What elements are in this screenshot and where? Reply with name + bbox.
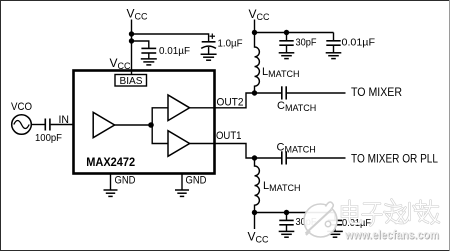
- wire A3 to pin OUT1: [190, 143, 215, 145]
- junction node E: [284, 30, 289, 35]
- wire OUT2 to node F: [215, 93, 255, 108]
- wire A2 to pin OUT2: [190, 107, 215, 109]
- svg-text:VCO: VCO: [11, 101, 32, 113]
- wire split to A2/A3: [152, 108, 168, 144]
- wire A1 to node: [115, 124, 152, 126]
- wire top supply rail: [255, 32, 334, 34]
- wire C6 to output: [287, 157, 346, 159]
- junction node D: [252, 30, 257, 35]
- ground symbol pin 1: [104, 190, 118, 196]
- junction node A: [129, 31, 134, 36]
- watermark stamp logo: [304, 202, 337, 237]
- junction node B: [129, 38, 134, 43]
- ground for C8: [327, 231, 343, 237]
- capacitor C4 0.01uF: [326, 33, 340, 53]
- svg-text:BIAS: BIAS: [120, 76, 143, 87]
- svg-text:TO MIXER OR PLL: TO MIXER OR PLL: [351, 154, 439, 166]
- svg-text:GND: GND: [186, 175, 207, 187]
- svg-text:0.01µF: 0.01µF: [159, 46, 190, 57]
- svg-text:IN: IN: [59, 114, 70, 126]
- capacitor C7 30pF bottom: [279, 213, 293, 232]
- wire node F to C5: [255, 92, 282, 94]
- wire OUT1 to node G: [215, 144, 255, 159]
- wire node G to C6: [255, 157, 282, 159]
- capacitor C2 1.0uF polarized: [201, 34, 216, 54]
- pin GND 2: [181, 174, 183, 190]
- svg-text:30pF: 30pF: [296, 37, 317, 48]
- svg-text:MAX2472: MAX2472: [86, 155, 135, 169]
- ground for C2: [201, 54, 217, 60]
- VCC supply (bottom): [248, 213, 270, 245]
- svg-text:www.elecfans.com: www.elecfans.com: [344, 228, 439, 242]
- svg-text:GND: GND: [115, 175, 136, 187]
- capacitor C5 CMATCH top: [282, 86, 286, 99]
- svg-text:100pF: 100pF: [35, 133, 62, 144]
- ground for C1: [141, 59, 157, 65]
- svg-text:TO MIXER: TO MIXER: [351, 87, 402, 99]
- capacitor 100pF: [45, 119, 50, 131]
- wire C5 to output: [287, 92, 346, 94]
- IC U1 MAX2472 box: [74, 71, 215, 174]
- wire VCO to capacitor: [31, 124, 44, 126]
- buffer amplifier A1: [93, 112, 114, 137]
- BIAS block: [115, 75, 147, 87]
- capacitor C1 0.01uF: [141, 48, 156, 58]
- junction node C: [148, 122, 154, 128]
- capacitor C6 CMATCH bottom: [282, 151, 286, 164]
- VCC supply (top right): [249, 7, 271, 33]
- svg-text:1.0µF: 1.0µF: [218, 39, 243, 50]
- wire bottom supply rail: [255, 212, 336, 214]
- inductor L1 LMATCH top: [255, 33, 260, 94]
- capacitor C3 30pF: [279, 33, 293, 53]
- wire node A to 1.0uF: [132, 34, 209, 41]
- junction node H: [252, 210, 257, 215]
- watermark chinese characters: [342, 200, 439, 226]
- junction node F: [252, 90, 257, 95]
- ground for C4: [326, 53, 342, 59]
- VCC supply (top left): [127, 7, 149, 75]
- pin GND 1: [110, 174, 112, 190]
- wire node B to 0.01uF: [132, 41, 149, 48]
- capacitor C8 0.01uF bottom: [328, 213, 342, 232]
- svg-text:OUT1: OUT1: [216, 130, 242, 142]
- ground symbol pin 2: [175, 190, 189, 196]
- buffer amplifier A2: [168, 95, 190, 121]
- watermark chinese characters hollow core: [342, 200, 439, 226]
- svg-text:0.01µF: 0.01µF: [342, 38, 376, 49]
- junction node G: [252, 155, 257, 160]
- junction node I: [284, 210, 289, 215]
- svg-text:OUT2: OUT2: [217, 97, 244, 109]
- wire capacitor to pin IN: [51, 124, 74, 126]
- inductor L2 LMATCH bottom: [255, 158, 260, 213]
- buffer amplifier A3: [168, 131, 190, 157]
- ground for C7: [279, 231, 295, 237]
- ground for C3: [279, 53, 295, 59]
- voltage source VCO: [12, 115, 32, 135]
